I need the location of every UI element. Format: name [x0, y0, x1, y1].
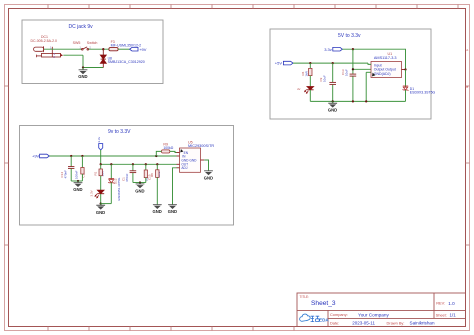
border ticks bottom: [48, 327, 294, 331]
wire net port down to bus: [100, 150, 102, 164]
resistor R9: [162, 150, 170, 153]
svg-text:Sheet_3: Sheet_3: [311, 300, 336, 307]
junction C13 bottom: [352, 100, 354, 102]
output bus (block3): [101, 163, 177, 165]
junction join: [77, 180, 79, 182]
svg-text:ESD9X3.3ST5G: ESD9X3.3ST5G: [410, 91, 436, 95]
resistor R4: [309, 63, 311, 68]
svg-text:+9V: +9V: [32, 154, 40, 159]
junction D12 top: [110, 163, 112, 165]
svg-text:+5V: +5V: [275, 61, 283, 66]
resistor R1: [100, 164, 102, 169]
ESD diode D12: [110, 164, 112, 179]
wire LED junction to D12 column: [101, 203, 112, 205]
block frame 9v to 3.3V: [20, 126, 234, 226]
ground GND (LED): [96, 204, 105, 215]
ground GND (block1): [78, 68, 87, 80]
LED D4: [304, 87, 313, 94]
svg-text:GND: GND: [135, 189, 144, 194]
junction LED bottom: [100, 202, 102, 204]
svg-text:REV:: REV:: [436, 301, 445, 306]
svg-text:TITLE:: TITLE:: [300, 295, 310, 299]
ground GND (U5 tab): [204, 170, 213, 180]
svg-text:+9V: +9V: [139, 47, 147, 52]
join wire C1/C15: [133, 182, 146, 184]
capacitor C13: [352, 49, 354, 74]
capacitor C14: [70, 156, 72, 166]
border ticks left: [5, 86, 9, 245]
wire switch to fuse: [89, 48, 109, 50]
junction R9 tap: [155, 155, 157, 157]
svg-text:R8: R8: [150, 173, 154, 177]
capacitor C16 (box style): [81, 156, 83, 168]
regulator U1 box: [371, 62, 402, 78]
ground GND (C1/C15): [135, 183, 144, 194]
ground GND (block2): [328, 101, 337, 112]
wire U5 tab gnd: [204, 160, 208, 171]
junction C15 top: [145, 163, 147, 165]
wire 3.3v rail: [342, 49, 405, 69]
capacitor C9: [332, 63, 334, 82]
svg-text:MIC29300S/TR: MIC29300S/TR: [188, 144, 214, 148]
capacitor C1: [132, 164, 134, 170]
svg-text:Your Company: Your Company: [358, 312, 389, 317]
resistor R8: [156, 164, 158, 170]
ground rail (block2): [310, 100, 405, 102]
TVS diode U8 stubs: [102, 49, 104, 55]
svg-text:GND: GND: [204, 175, 213, 180]
block frame DC jack 9v: [22, 20, 163, 84]
junction R8 top: [156, 163, 158, 165]
svg-text:9v to 3.3V: 9v to 3.3V: [108, 129, 131, 135]
regulator U5 right pin stub: [201, 159, 205, 161]
junction U1 right pin: [404, 68, 406, 70]
wire input jog: [368, 63, 371, 64]
svg-text:Company:: Company:: [330, 312, 348, 317]
junction C9 top: [332, 62, 334, 64]
junction R1 top: [100, 163, 102, 165]
wire down to D1: [405, 70, 407, 88]
regulator U5 left pin stubs: [177, 153, 180, 168]
wire down to gnd row: [83, 55, 103, 67]
net flag +9V: [130, 47, 138, 51]
svg-text:10uF: 10uF: [323, 75, 327, 82]
wire fuse to +9V flag: [118, 48, 130, 50]
border tick labels right: [466, 48, 468, 89]
ESD diode D1: [403, 86, 409, 91]
svg-text:ADJ: ADJ: [181, 166, 187, 170]
svg-text:3.3v: 3.3v: [324, 47, 332, 52]
switch SW5 pin numbers: [79, 45, 91, 49]
svg-text:SMBJ13CA_C3012920: SMBJ13CA_C3012920: [108, 60, 145, 64]
svg-text:GND: GND: [168, 209, 177, 214]
LED (block3): [95, 190, 105, 198]
svg-text:2v: 2v: [297, 87, 301, 91]
EasyEDA logo hanzi marks: [311, 316, 320, 321]
fuse F3 body: [109, 48, 118, 51]
svg-text:GND: GND: [73, 187, 82, 192]
svg-text:GND: GND: [78, 74, 87, 79]
wire jack pin2 right: [63, 54, 83, 56]
svg-text:Input: Input: [374, 63, 382, 67]
svg-text:Sainikrishan: Sainikrishan: [410, 321, 435, 326]
svg-text:10uF: 10uF: [345, 69, 349, 76]
border ticks right: [466, 86, 470, 245]
regulator U1 pin rows: [374, 63, 396, 76]
ground GND (R8): [153, 204, 162, 214]
ground GND (ADJ): [168, 204, 177, 214]
svg-text:Date:: Date:: [330, 320, 339, 325]
switch SW5 symbol: [82, 47, 89, 50]
wire U1 output-left to C13 column: [353, 68, 371, 70]
wire +9V rail (block3): [49, 155, 176, 157]
title block frame: [297, 293, 466, 327]
junction gnd row: [82, 66, 84, 68]
connector DC1 pin numbers: [50, 46, 55, 60]
svg-text:EDA: EDA: [319, 318, 329, 323]
junction C13 top: [352, 48, 354, 50]
svg-text:B: B: [466, 85, 468, 89]
EasyEDA logo cloud: [300, 314, 310, 321]
junction output wire on C13 column: [352, 68, 354, 70]
svg-text:ESD6951.30T5G: ESD6951.30T5G: [117, 177, 121, 201]
wire jack pin1 to switch: [44, 48, 82, 50]
wire +5V rail: [293, 62, 368, 64]
svg-text:3.3v: 3.3v: [97, 136, 101, 142]
svg-text:470nF: 470nF: [125, 173, 129, 182]
svg-text:100kΩ: 100kΩ: [163, 146, 173, 150]
svg-text:GND: GND: [153, 209, 162, 214]
regulator U5 pin1 marker: [180, 149, 183, 152]
capacitor C15 (box style): [145, 164, 147, 170]
TVS diode U8 symbol: [100, 55, 106, 63]
border ticks top: [48, 5, 458, 9]
junction R top: [309, 62, 311, 64]
svg-text:GND: GND: [328, 108, 337, 113]
junction C16 top: [81, 155, 83, 157]
connector DC1 pin arrow: [60, 54, 63, 57]
junction C9 bottom: [332, 100, 334, 102]
svg-text:470nF: 470nF: [63, 170, 67, 179]
junction at TVS tap: [102, 48, 104, 50]
ground GND (C14/C16): [73, 181, 82, 192]
U1 right pin stub: [402, 69, 406, 71]
regulator U1 pin1 marker: [372, 73, 375, 77]
wire ADJ to gnd: [173, 168, 177, 205]
block frame 5V to 3.3v: [270, 29, 431, 119]
svg-text:Sheet:: Sheet:: [436, 312, 447, 317]
svg-text:GND: GND: [96, 210, 105, 215]
svg-text:GND(ADJ): GND(ADJ): [374, 72, 391, 76]
junction C14 top: [70, 155, 72, 157]
svg-text:3.3V: 3.3V: [89, 190, 93, 196]
svg-text:1/1: 1/1: [450, 313, 457, 318]
svg-text:AMS1117-3.3: AMS1117-3.3: [374, 56, 397, 60]
regulator U5 pin rows: [181, 151, 197, 170]
join wire C14/C16: [71, 180, 82, 182]
svg-text:R1: R1: [94, 171, 98, 175]
junction C1 top: [132, 163, 134, 165]
junction gnd wire on rail: [365, 100, 367, 102]
connector DC1 symbol: [34, 46, 61, 57]
svg-text:2023-05-11: 2023-05-11: [352, 321, 375, 326]
junction join C1/C15: [139, 181, 141, 183]
svg-text:DC-005-2.5A-2.0: DC-005-2.5A-2.0: [31, 39, 58, 43]
svg-text:DC jack 9v: DC jack 9v: [69, 24, 94, 30]
wire U1 gnd pin down: [365, 72, 367, 101]
svg-text:1.0: 1.0: [448, 301, 455, 306]
svg-text:5V to 3.3v: 5V to 3.3v: [338, 33, 361, 39]
svg-text:Drawn By:: Drawn By:: [387, 320, 405, 325]
svg-text:100nF: 100nF: [75, 170, 79, 179]
svg-text:A: A: [466, 48, 468, 52]
svg-text:1kR: 1kR: [304, 70, 308, 76]
regulator U5 box: [180, 148, 201, 172]
